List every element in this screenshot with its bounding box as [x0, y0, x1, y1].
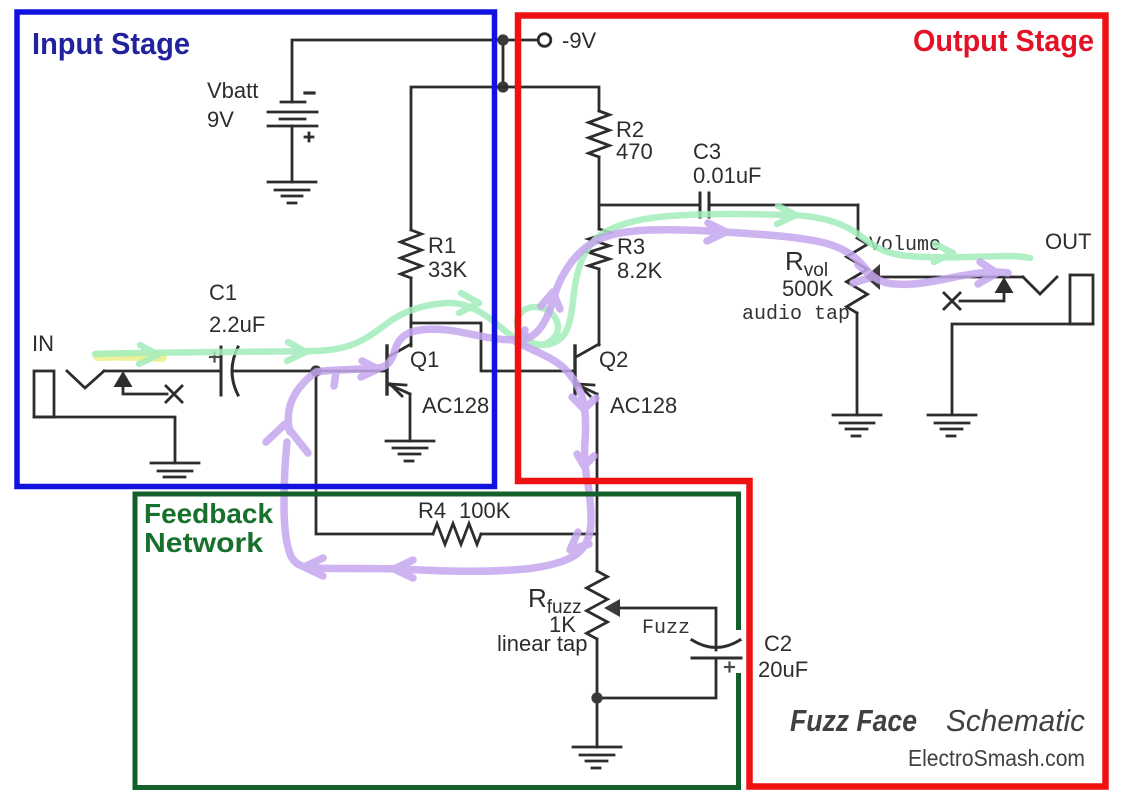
green signal path — [95, 206, 1030, 364]
title Input Stage — [32, 26, 190, 61]
box Output Stage (red, notched) — [518, 16, 1106, 787]
node Q1 base / feedback junction — [310, 365, 321, 376]
transistor Q2 AC128 — [575, 344, 599, 571]
terminal -9V open circle — [538, 34, 551, 47]
ground IN jack — [151, 463, 199, 477]
ground battery — [268, 182, 316, 203]
svg-text:AC128: AC128 — [422, 393, 489, 418]
title Output Stage — [913, 23, 1094, 58]
svg-text:linear tap: linear tap — [497, 631, 588, 656]
resistor R1 33K — [401, 230, 422, 278]
svg-text:Fuzz: Fuzz — [642, 617, 690, 640]
resistor R3 8.2K — [589, 229, 610, 269]
svg-text:Q2: Q2 — [599, 347, 628, 372]
potentiometer Rvol 500K — [847, 205, 881, 415]
svg-text:Input Stage: Input Stage — [32, 26, 190, 61]
wire Rvol wiper to OUT jack — [880, 276, 1023, 279]
caption Fuzz Face Schematic — [790, 703, 1085, 771]
svg-text:Vbatt: Vbatt — [207, 78, 258, 103]
svg-text:-9V: -9V — [562, 28, 597, 53]
yellow highlight near IN — [98, 356, 162, 357]
svg-text:100K: 100K — [459, 498, 511, 523]
svg-text:ElectroSmash.com: ElectroSmash.com — [908, 745, 1085, 771]
box Feedback Network (green, gap at C2) — [135, 494, 739, 788]
wire R4 to Q2 emitter — [481, 533, 597, 536]
svg-text:Network: Network — [144, 527, 263, 558]
wire vertical between supply junctions — [502, 40, 505, 87]
svg-text:Q1: Q1 — [410, 347, 439, 372]
capacitor C1 2.2uF — [210, 347, 387, 395]
box Input Stage (blue) — [17, 12, 495, 487]
ground Q1 emitter — [386, 441, 434, 461]
svg-text:33K: 33K — [428, 257, 467, 282]
wire battery top to -9V node — [292, 40, 537, 102]
resistor R2 470 — [589, 111, 610, 157]
capacitor C2 20uF — [597, 640, 741, 698]
jack OUT — [944, 275, 1093, 415]
svg-text:Fuzz Face: Fuzz Face — [790, 703, 917, 738]
transistor Q1 AC128 — [387, 344, 411, 441]
wire R3 to Q2 collector — [598, 269, 601, 345]
svg-text:C1: C1 — [209, 280, 237, 305]
resistor R4 100K — [433, 524, 481, 545]
svg-text:C3: C3 — [693, 139, 721, 164]
svg-text:0.01uF: 0.01uF — [693, 163, 762, 188]
svg-text:AC128: AC128 — [610, 393, 677, 418]
wire -9V rail to R1 and R2 — [411, 87, 599, 230]
ground Rvol — [833, 415, 881, 436]
svg-text:Feedback: Feedback — [144, 498, 273, 529]
node C2 / Rfuzz ground junction — [591, 692, 602, 703]
potentiometer Rfuzz 1K — [587, 571, 717, 747]
svg-text:audio tap: audio tap — [742, 303, 850, 326]
svg-text:Schematic: Schematic — [946, 703, 1085, 738]
svg-text:IN: IN — [32, 331, 54, 356]
svg-text:9V: 9V — [207, 107, 234, 132]
battery V1 Vbatt — [268, 93, 317, 182]
svg-text:R1: R1 — [428, 233, 456, 258]
svg-text:8.2K: 8.2K — [617, 258, 663, 283]
wire feedback down from node — [316, 371, 433, 534]
svg-text:R4: R4 — [418, 498, 446, 523]
svg-text:R3: R3 — [617, 234, 645, 259]
svg-text:470: 470 — [616, 139, 653, 164]
capacitor C3 0.01uF — [599, 193, 858, 217]
purple signal path forward — [266, 223, 1008, 578]
svg-text:C2: C2 — [764, 631, 792, 656]
node supply junction top — [497, 34, 508, 45]
svg-text:Output Stage: Output Stage — [913, 23, 1094, 58]
svg-text:20uF: 20uF — [758, 657, 808, 682]
title Feedback Network — [144, 498, 273, 558]
node supply junction lower — [497, 81, 508, 92]
ground OUT jack — [928, 415, 976, 436]
wire R2 to node — [598, 157, 601, 229]
purple feedback path — [284, 342, 591, 571]
svg-text:500K: 500K — [782, 276, 834, 301]
wire Q1 collector to Q2 base — [411, 323, 574, 371]
svg-text:2.2uF: 2.2uF — [209, 312, 265, 337]
wire R1 to Q1 collector — [410, 278, 413, 346]
svg-text:OUT: OUT — [1045, 229, 1091, 254]
ground Rfuzz — [573, 747, 621, 768]
jack IN — [34, 371, 221, 463]
